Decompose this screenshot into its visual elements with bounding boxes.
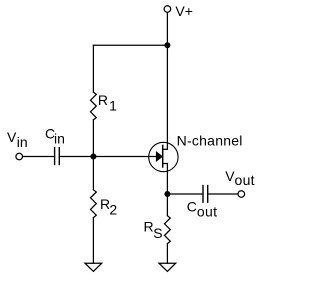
svg-text:V: V	[7, 129, 17, 145]
svg-text:out: out	[235, 172, 255, 188]
capacitor Cin	[55, 148, 60, 165]
wire gate node to R2	[92, 157, 94, 190]
svg-text:in: in	[54, 130, 65, 146]
wire RS to ground	[166, 244, 168, 264]
capacitor Cout	[203, 186, 208, 203]
wire top rail	[93, 44, 167, 46]
svg-text:1: 1	[109, 98, 117, 114]
resistor R1	[91, 92, 97, 120]
wire R2 to ground	[92, 218, 94, 264]
svg-text:out: out	[197, 204, 217, 220]
svg-text:R: R	[98, 92, 108, 108]
terminal Vin	[16, 153, 23, 160]
wire left rail upper	[92, 45, 94, 92]
wire source to output node	[166, 164, 168, 216]
wire V+ to drain rail	[166, 13, 168, 150]
junction node at gate	[90, 154, 96, 160]
terminal V+	[164, 6, 171, 13]
svg-text:N-channel: N-channel	[177, 133, 243, 149]
wire R1 to gate node	[92, 120, 94, 157]
junction node at source/output	[164, 191, 170, 197]
resistor R2	[91, 190, 97, 218]
wire Vin to Cin	[23, 156, 55, 158]
ground under RS	[159, 263, 176, 271]
svg-text:S: S	[153, 225, 162, 241]
terminal Vout	[238, 191, 245, 198]
svg-text:2: 2	[109, 201, 117, 217]
ground under R2	[85, 263, 102, 271]
JFET channel bar	[162, 145, 164, 167]
svg-text:in: in	[17, 134, 28, 150]
resistor RS	[165, 216, 171, 244]
svg-text:R: R	[144, 219, 154, 235]
wire output node to Cout	[167, 193, 203, 195]
wire Cin to gate	[59, 156, 161, 158]
svg-text:C: C	[187, 199, 197, 215]
JFET source jog	[163, 163, 168, 165]
JFET gate arrow	[156, 152, 162, 161]
junction node at V+ rail	[164, 42, 170, 48]
transistor Q1 N-channel JFET body	[149, 142, 178, 171]
JFET drain jog	[163, 148, 168, 150]
svg-text:V+: V+	[175, 3, 193, 19]
wire Cout to Vout	[208, 193, 238, 195]
